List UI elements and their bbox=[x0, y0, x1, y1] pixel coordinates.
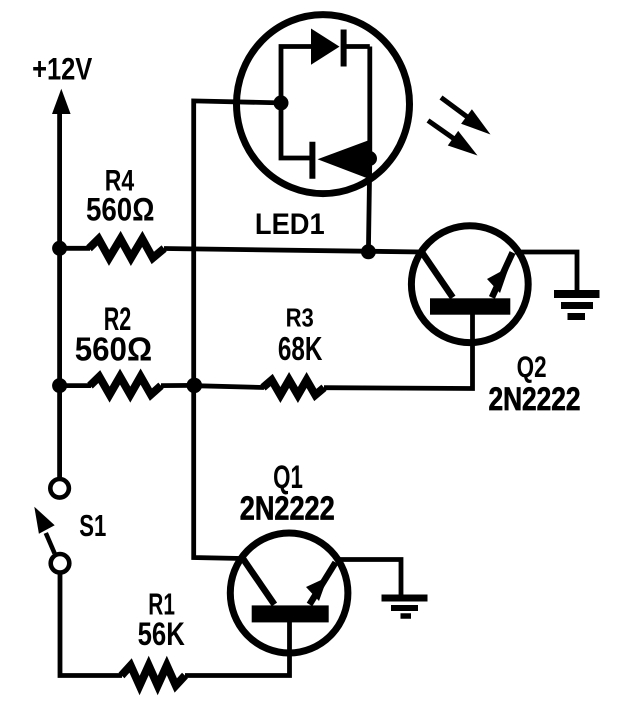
svg-text:560Ω: 560Ω bbox=[86, 193, 154, 228]
Q1 base bar bbox=[252, 605, 329, 622]
svg-text:S1: S1 bbox=[79, 509, 106, 543]
Q2 collector line bbox=[420, 250, 453, 298]
wire R4 to Q2 collector row bbox=[164, 249, 422, 253]
ground Q1 bbox=[382, 595, 428, 602]
svg-text:2N2222: 2N2222 bbox=[488, 382, 580, 418]
wire LED junction down to Q1 collector bbox=[194, 386, 242, 559]
resistor R1 bbox=[122, 666, 186, 686]
cathode bar D-top bbox=[341, 30, 347, 67]
switch S1 lever bbox=[46, 533, 55, 553]
wire left rail bbox=[57, 109, 62, 478]
resistor R4 bbox=[89, 239, 164, 258]
wire junction to R3 bbox=[194, 386, 264, 388]
svg-text:560Ω: 560Ω bbox=[75, 331, 152, 368]
wire LED branch vertical + top corner bbox=[194, 101, 281, 386]
Q2 emitter arrowhead bbox=[487, 267, 509, 293]
Q1 collector line bbox=[243, 558, 275, 605]
diode D-bottom of LED1 bbox=[318, 141, 369, 179]
junction dot R2/R3/LED bbox=[187, 378, 203, 394]
ground Q2 bbox=[554, 290, 600, 298]
wire LED inner top-right bbox=[344, 44, 370, 49]
svg-text:+12V: +12V bbox=[32, 52, 92, 87]
light arrow lower bbox=[428, 121, 455, 140]
svg-text:R3: R3 bbox=[286, 304, 314, 333]
wire R2 to junction bbox=[161, 383, 194, 388]
wire R2 left stub bbox=[60, 383, 91, 388]
Q2 emitter line bbox=[492, 253, 513, 298]
LED1 circle bbox=[237, 15, 410, 194]
Q1 emitter arrowhead bbox=[306, 577, 328, 601]
svg-text:56K: 56K bbox=[138, 617, 185, 652]
resistor R3 bbox=[263, 380, 324, 395]
junction dot R4 row bbox=[52, 241, 67, 256]
svg-text:2N2222: 2N2222 bbox=[240, 490, 335, 527]
wire R3 to Q2 base bbox=[324, 310, 473, 389]
diode D-top of LED1 bbox=[311, 29, 340, 65]
junction dot LED bottom-right bbox=[362, 151, 377, 166]
resistor R2 bbox=[90, 377, 161, 395]
svg-text:R1: R1 bbox=[148, 586, 175, 621]
light arrow upper bbox=[441, 98, 468, 118]
junction dot R2 row left bbox=[52, 378, 67, 393]
switch S1 lower contact bbox=[51, 554, 70, 573]
Q2 base bar bbox=[430, 298, 510, 314]
switch S1 lever arrowhead bbox=[34, 507, 54, 534]
wire R4 left stub bbox=[60, 246, 90, 251]
Q1 emitter line bbox=[310, 562, 336, 604]
cathode bar D-bottom bbox=[309, 142, 315, 179]
transistor Q2 circle bbox=[411, 226, 528, 343]
wire R1 to Q1 base bbox=[185, 621, 290, 676]
wire LED inner right vertical down to Q2 row bbox=[368, 47, 369, 252]
wire Q2 emitter to ground bbox=[515, 252, 577, 292]
switch S1 upper contact bbox=[50, 479, 69, 498]
svg-text:68K: 68K bbox=[278, 331, 323, 368]
transistor Q1 circle bbox=[230, 533, 348, 653]
wire Q1 emitter to ground bbox=[338, 560, 401, 597]
junction dot LED cathode / Q2 row bbox=[361, 244, 376, 259]
wire rail S1 to bottom row bbox=[60, 573, 122, 676]
svg-text:LED1: LED1 bbox=[255, 208, 325, 241]
power arrow +12V bbox=[52, 89, 71, 114]
svg-text:Q2: Q2 bbox=[517, 350, 547, 384]
wire LED inner left branch bbox=[281, 47, 312, 159]
junction dot LED left bbox=[274, 95, 289, 110]
